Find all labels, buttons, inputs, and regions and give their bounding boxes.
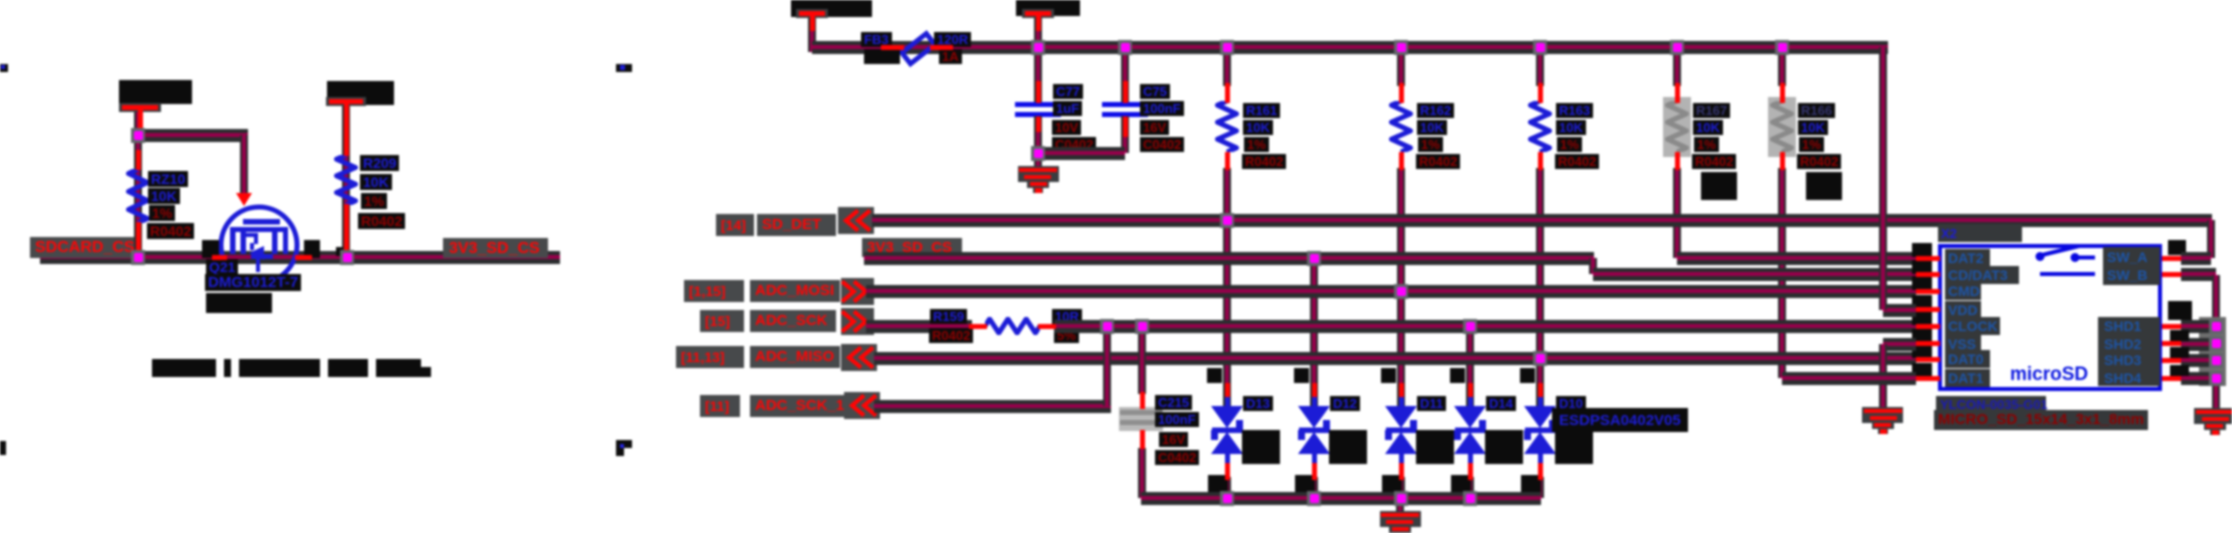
3V3 riser to VDD: [1879, 47, 1887, 310]
X2 SHD2 stub: [2162, 341, 2181, 346]
junction RZ10 to net: [131, 250, 145, 265]
D10 pin1 stub: [1538, 383, 1543, 397]
3V3 top bus: [812, 41, 1888, 54]
C215 designator: [1155, 395, 1192, 410]
SHD wire y=343.5: [2181, 338, 2216, 351]
C75 designator: [1140, 84, 1170, 99]
X2 pin name bg VSS: [1945, 335, 1981, 353]
TVS diode D13: [1210, 406, 1244, 455]
3V3_SD_CS jog down: [1589, 258, 1597, 274]
R162 pin2 stub: [1399, 152, 1404, 170]
wire power to R209: [342, 103, 350, 257]
label bg SDCARD_CS: [30, 237, 140, 258]
port name ADC_MISO: [755, 348, 834, 365]
redacted caption word 5: [376, 359, 421, 377]
Q21 part number: [205, 274, 301, 291]
D14 redacted note B: [1451, 475, 1471, 494]
SHD pin number redacted 2: [2170, 330, 2189, 341]
R166 tolerance: [1799, 137, 1824, 152]
D12 redacted note B: [1295, 475, 1315, 494]
X2 SW_A pin number redacted: [2168, 240, 2186, 255]
SHD wire y=360: [2181, 354, 2216, 367]
C77 to gnd: [1034, 116, 1042, 168]
X2 right stub repaint: [2162, 358, 2181, 363]
D12 blue lead bottom: [1312, 453, 1317, 465]
wire ADC_MISO to DAT0: [874, 352, 1916, 365]
gnd stub under ESD bus: [1396, 498, 1404, 514]
junction shield gnd y=326: [2209, 319, 2223, 334]
port chevron ADC_MISO: [841, 344, 877, 371]
X2 pin 4 stub (VDD): [1916, 307, 1940, 312]
Q21 designator: [206, 259, 238, 275]
R162 designator: [1417, 103, 1454, 118]
D11 blue lead top: [1399, 395, 1404, 408]
D12 blue lead top: [1312, 395, 1317, 408]
D10 part number bg: [1552, 408, 1688, 432]
SHD wire y=326: [2181, 320, 2216, 333]
R209 footprint: [358, 213, 405, 229]
R161 value: [1243, 120, 1273, 135]
R209 value: [360, 174, 392, 190]
bus to R161: [1223, 47, 1231, 86]
X2 pin 7 stub (DAT0): [1916, 357, 1940, 362]
C77 pin2 stub: [1036, 117, 1041, 132]
junction at RZ10 top tap: [131, 128, 145, 143]
RZ10 pin 1 stub: [136, 150, 141, 170]
wire R159 to CLOCK: [1054, 320, 1916, 333]
wire to CD/DAT3 pin: [1593, 268, 1916, 281]
C75 footprint: [1140, 137, 1184, 152]
port ref bg [1,15]: [684, 280, 744, 302]
R167 footprint: [1692, 154, 1736, 169]
junction 3V3_SD_CS / D12: [1307, 251, 1321, 266]
C77 voltage: [1052, 120, 1081, 135]
R163 footprint: [1555, 154, 1599, 169]
D12 designator: [1330, 396, 1360, 411]
wire R167 to DAT2 pin: [1677, 252, 1916, 265]
redacted footprint under Q21: [206, 293, 272, 313]
X2 part number: [1940, 397, 2048, 412]
X2 right stub repaint: [2162, 376, 2181, 381]
D14 pin1 stub: [1468, 383, 1473, 397]
resistor R161 body: [1215, 101, 1239, 152]
X2 pin name SHD3: [2104, 352, 2141, 368]
D13 pin2 stub: [1225, 463, 1230, 480]
junction bus / R162: [1394, 40, 1408, 55]
redacted caption word 2: [224, 359, 231, 377]
redacted under FB3: [864, 49, 900, 64]
X2 footprint: [1938, 411, 2144, 428]
X2 pin name bg DAT1: [1945, 369, 1990, 387]
ground under VSS: [1862, 407, 1903, 423]
X2 pin name SW_A: [2107, 249, 2147, 265]
X2 pin name DAT0: [1948, 351, 1984, 367]
R161 pin2 stub: [1225, 152, 1230, 170]
SHD pin number redacted 3: [2170, 347, 2189, 358]
power stem red mid1: [810, 16, 815, 31]
ground under ESD bus: [1380, 511, 1421, 527]
port ref [14]: [721, 217, 746, 233]
power to C7: [1034, 16, 1042, 102]
junction bus / R163: [1533, 40, 1547, 55]
redacted caption word 3: [239, 359, 320, 377]
FB3 pin1 stub repaint: [881, 45, 904, 50]
D10 blue lead top: [1538, 395, 1543, 408]
D11 redacted note A: [1416, 430, 1454, 464]
Q21 right pin stub: [295, 255, 312, 260]
port ref bg [14]: [716, 214, 754, 236]
Q21 pin number redacted left: [202, 240, 219, 258]
port chevron ADC_MOSI: [841, 278, 874, 305]
C215 pin1 stub: [1140, 392, 1145, 409]
port name ADC_MOSI: [755, 282, 834, 299]
port name bg ADC_SCK_1: [750, 395, 850, 417]
R166 designator: [1798, 103, 1835, 118]
R163 designator: [1556, 103, 1593, 118]
R167 DNF gray bg: [1663, 97, 1691, 157]
junction shield gnd y=378: [2209, 371, 2223, 386]
junction bus / power 2: [1031, 40, 1045, 55]
RZ10 designator: [148, 171, 188, 187]
X2 partnumber bg: [1936, 396, 2046, 412]
D11 pin2 stub: [1399, 463, 1404, 480]
power stem red mid2: [1036, 16, 1041, 31]
sheet mark top-middle: [616, 64, 632, 72]
R166 pin2 stub: [1780, 152, 1785, 170]
SW_B/shield to gnd riser: [2212, 275, 2220, 411]
C77 value: [1053, 101, 1082, 116]
wire down to Q21 drain: [240, 135, 248, 193]
D10 designator: [1556, 396, 1586, 411]
resistor R209 body: [334, 155, 358, 205]
sheet mark bottom-left: [0, 441, 6, 455]
bus to R167: [1673, 47, 1681, 86]
wire ADC_SCK_1: [874, 400, 1111, 413]
power flag stem to bus: [808, 16, 816, 52]
D13 redacted note A: [1242, 430, 1280, 464]
junction gnd bus x=1227: [1220, 491, 1234, 506]
D12 pin2 stub: [1312, 463, 1317, 480]
redacted power net name 1: [119, 80, 192, 104]
ferrite bead FB3: [898, 28, 938, 70]
FB3 pin2 stub: [930, 45, 953, 50]
Q21 left pin stub: [212, 255, 227, 260]
power flag mid 1: [796, 9, 828, 18]
transistor Q21 circle: [218, 204, 300, 286]
port chevron SD_DET: [838, 207, 874, 234]
X2 designator: [1941, 226, 1957, 241]
port chevron ADC_SCK: [841, 308, 874, 335]
junction R209 to net: [340, 250, 354, 265]
capacitor C75 plates: [1102, 102, 1148, 107]
D11 pin number redacted: [1381, 368, 1396, 383]
port name ADC_SCK_1: [755, 397, 844, 414]
R162 tolerance: [1418, 137, 1443, 152]
X2 right stub repaint: [2162, 272, 2181, 277]
junction ADC_SCK / C215: [1135, 319, 1149, 334]
X2 pin name bg CMD: [1945, 282, 1981, 300]
power flag mid 2: [1022, 9, 1054, 18]
wire from power flag to net: [134, 110, 142, 257]
R166 DNF gray bg: [1768, 97, 1796, 157]
R166 col down to DAT1: [1778, 168, 1786, 378]
redacted caption word 4: [328, 359, 368, 377]
power stem red 1: [138, 110, 143, 132]
C77 designator: [1053, 84, 1083, 99]
D14 designator: [1486, 396, 1516, 411]
FB3 value: [934, 32, 971, 47]
R167 redacted note: [1701, 172, 1737, 200]
R161 pin1 stub: [1225, 83, 1230, 103]
D11 designator: [1417, 396, 1446, 411]
R166 footprint: [1797, 154, 1841, 169]
wire SDCARD_CS / 3V3_SD_CS main net: [40, 251, 560, 264]
port name bg ADC_SCK: [750, 310, 836, 332]
X2 SHD4 stub: [2162, 376, 2181, 381]
bus to C75: [1121, 47, 1129, 102]
redacted power net name 4: [1016, 0, 1080, 16]
wire VSS to gnd: [1883, 338, 1916, 351]
SW_B wire: [2181, 268, 2216, 281]
resistor R162 body: [1389, 101, 1413, 152]
D14 blue lead bottom: [1468, 453, 1473, 465]
R161 col down to D13: [1223, 168, 1231, 412]
X2 pin name bg CD/DAT3: [1945, 266, 2019, 284]
port ref [11,13]: [681, 349, 725, 365]
D12 pin1 stub: [1312, 383, 1317, 397]
X2 card detect switch: [2030, 240, 2100, 280]
FB3 designator: [861, 32, 892, 47]
wire 3V3 to VDD: [1883, 304, 1916, 317]
R163 value: [1556, 120, 1586, 135]
R167 tolerance: [1694, 137, 1719, 152]
junction ADC_SCK / D14: [1463, 319, 1477, 334]
port ref [1,15]: [689, 283, 726, 299]
R163 pin1 stub: [1538, 83, 1543, 103]
junction bus / C75: [1118, 40, 1132, 55]
D12 column: [1310, 258, 1318, 412]
D10 pin number redacted: [1520, 368, 1535, 383]
RZ10 footprint: [147, 223, 194, 239]
port ref [11]: [705, 398, 729, 414]
R163 col down to D10: [1536, 168, 1544, 412]
R159 value: [1052, 309, 1082, 324]
X2 pin name CLOCK: [1948, 318, 1998, 334]
junction gnd bus x=1314: [1307, 491, 1321, 506]
R162 pin1 stub: [1399, 83, 1404, 103]
X2 pin name bg DAT0: [1945, 350, 1990, 368]
gray highlight behind shield junctions: [2199, 317, 2226, 386]
X2 pin name bg DAT2: [1945, 249, 1990, 267]
redacted power net name 2: [327, 81, 394, 105]
junction ADC_MOSI / R162-D11: [1394, 284, 1408, 299]
resistor R159 body: [985, 317, 1040, 335]
Q21 pin number redacted right: [304, 240, 320, 258]
R162 col down to D11: [1397, 168, 1405, 412]
D13 designator: [1243, 396, 1273, 411]
capacitor C77 plates: [1015, 102, 1061, 107]
FB3 pin1 stub: [881, 45, 904, 50]
resistor RZ10 body: [126, 169, 150, 223]
SHD pin number redacted 1: [2168, 301, 2192, 320]
R166 value: [1798, 120, 1828, 135]
R159 designator: [930, 309, 967, 324]
D12 pin number redacted: [1294, 368, 1309, 383]
FB3 pin2 stub repaint: [930, 45, 953, 50]
R167 pin2 stub: [1675, 152, 1680, 170]
redacted caption word 1: [152, 359, 216, 377]
X2 pin 8 stub (DAT1): [1916, 376, 1940, 381]
C215 footprint: [1155, 450, 1199, 465]
Q21 mosfet internals: [227, 213, 291, 275]
D10 pin2 stub: [1538, 463, 1543, 480]
label bg 3V3_SD_CS: [443, 238, 548, 258]
R159 pin2 stub: [1038, 324, 1056, 329]
X2 pin 2 stub (CD/DAT3): [1916, 272, 1940, 277]
power flag left 1: [119, 103, 161, 112]
D11 pin1 stub: [1399, 383, 1404, 397]
microSD connector X2 body: [1938, 244, 2162, 391]
D10 part number: [1559, 412, 1681, 429]
junction C77/C75 gnd: [1031, 146, 1045, 161]
wire to Q21 drain: [138, 129, 248, 142]
RZ10 value: [148, 188, 180, 204]
X2 pin 8 number redacted: [1912, 363, 1932, 377]
R163 pin2 stub: [1538, 152, 1543, 170]
X2 pin name CD/DAT3: [1948, 267, 2008, 283]
R166 pin1 stub: [1780, 83, 1785, 103]
X2 pin 5 stub (CLOCK): [1916, 324, 1940, 329]
port name ADC_SCK: [755, 312, 828, 329]
D10 redacted note A: [1555, 430, 1593, 464]
R161 footprint: [1242, 154, 1286, 169]
port name bg ADC_MISO: [750, 346, 840, 368]
label bg 3V3_SD_CS mid: [862, 238, 962, 257]
X2 right stub repaint: [2162, 324, 2181, 329]
wire ADC_MOSI to CMD: [866, 285, 1916, 298]
port name bg ADC_MOSI: [750, 280, 840, 302]
R161 tolerance: [1244, 137, 1269, 152]
VSS drop to gnd: [1879, 344, 1887, 410]
ADC_SCK_1 riser: [1103, 326, 1111, 406]
X2 pin 6 number redacted: [1912, 329, 1932, 343]
X2 pin 6 stub (VSS): [1916, 341, 1940, 346]
SD_DET drop to SW_A: [2207, 220, 2215, 258]
R167 designator: [1693, 103, 1730, 118]
X2 pin name SHD2: [2104, 336, 2141, 352]
D12 redacted note A: [1329, 430, 1367, 464]
junction shield gnd y=360: [2209, 353, 2223, 368]
D14 blue lead top: [1468, 395, 1473, 408]
redacted power net name 3: [791, 0, 872, 17]
ground right of X2: [2194, 408, 2232, 424]
SHD wire y=378: [2181, 372, 2216, 385]
R161 designator: [1243, 103, 1280, 118]
TVS diode D14: [1453, 406, 1487, 455]
D11 to gnd bus: [1397, 477, 1405, 498]
bus to R163: [1536, 47, 1544, 86]
X2 designator bg: [1938, 224, 2022, 242]
TVS diode D10: [1523, 406, 1557, 455]
X2 pin 1 number redacted: [1912, 243, 1932, 257]
R209 pin2 stub: [344, 204, 349, 255]
C215 voltage: [1159, 432, 1188, 447]
X2 SHD1 stub: [2162, 324, 2181, 329]
X2 pin name VDD: [1948, 302, 1978, 318]
X2 pin 3 stub (CMD): [1916, 289, 1940, 294]
D13 pin1 stub: [1225, 383, 1230, 397]
R162 value: [1417, 120, 1447, 135]
port ref bg [15]: [700, 310, 744, 332]
net label 3V3_SD_CS mid: [867, 239, 952, 256]
D13 pin number redacted: [1207, 368, 1222, 383]
ground under C77: [1018, 166, 1059, 182]
D13 blue lead bottom: [1225, 453, 1230, 465]
C77 footprint: [1052, 137, 1096, 152]
X2 pin name DAT2: [1948, 250, 1984, 266]
D14 to gnd bus: [1466, 477, 1474, 498]
bus to R166: [1778, 47, 1786, 86]
C75 pin1 stub: [1123, 81, 1128, 103]
D13 blue lead top: [1225, 395, 1230, 408]
D14 column: [1466, 326, 1474, 412]
TVS diode D11: [1384, 406, 1418, 455]
sheet mark blue dot 2: [620, 65, 625, 70]
junction SD_DET / R161-D13: [1220, 213, 1234, 228]
C75 down: [1121, 116, 1129, 153]
power flag left 2: [326, 97, 366, 106]
RZ10 pin 2 stub: [136, 222, 141, 256]
D14 redacted note A: [1485, 430, 1523, 464]
port chevron ADC_SCK_1: [844, 392, 880, 419]
R209 tolerance: [361, 193, 387, 209]
X2 SW name bg: [2103, 247, 2160, 285]
junction ADC_MISO / R163-D10: [1533, 351, 1547, 366]
port name bg SD_DET: [757, 214, 836, 236]
wire R166 to DAT1: [1782, 372, 1916, 385]
RZ10 tolerance: [149, 205, 175, 221]
resistor R167 body: [1665, 101, 1689, 152]
net label SDCARD_CS: [35, 239, 135, 257]
Q21 drain arrow: [236, 193, 252, 206]
D10 blue lead bottom: [1538, 453, 1543, 465]
R209 designator: [360, 155, 399, 171]
D13 redacted note B: [1208, 475, 1228, 494]
X2 footprint bg: [1934, 410, 2148, 430]
junction ADC_SCK / ADC_SCK_1: [1100, 319, 1114, 334]
C75 value: [1140, 101, 1184, 116]
D11 redacted note B: [1382, 475, 1402, 494]
FB3 current rating: [939, 49, 962, 64]
X2 pin name VSS: [1948, 336, 1976, 352]
ESD ground bus: [1141, 492, 1541, 505]
X2 pin name SW_B: [2107, 267, 2147, 283]
wire ADC_SCK to R159: [866, 320, 972, 333]
junction gnd bus x=1401: [1394, 491, 1408, 506]
junction bus / R167: [1670, 40, 1684, 55]
C215 DNF gray bg: [1119, 407, 1163, 431]
net label 3V3_SD_CS right: [449, 240, 540, 258]
capacitor C215 plates: [1120, 410, 1162, 415]
resistor R163 body: [1528, 101, 1552, 152]
D13 to gnd bus: [1223, 477, 1231, 498]
R159 footprint: [929, 328, 973, 343]
C75 voltage: [1140, 120, 1169, 135]
sheet mark blue dot: [1, 65, 5, 69]
port ref bg [11]: [700, 395, 740, 417]
small mark right of Q21: [336, 247, 343, 256]
R167 col down to DAT2: [1673, 168, 1681, 258]
